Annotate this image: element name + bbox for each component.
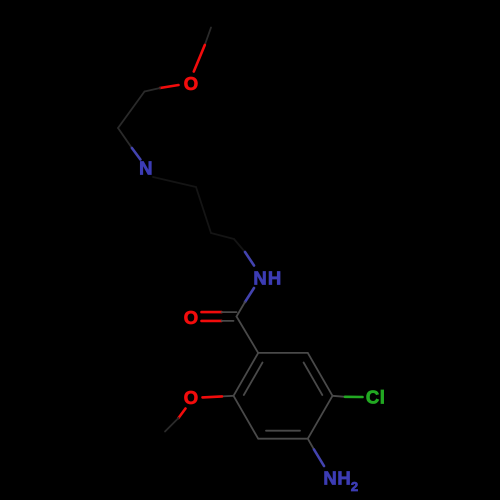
ring edge C5-C6: [308, 353, 333, 396]
wire C4-NH2 blue half: [314, 450, 324, 467]
wire NH-Cco carbon half: [237, 302, 246, 317]
wire NH to carbonyl C blue half: [245, 288, 254, 302]
svg-text:O: O: [184, 387, 198, 408]
ring edge C6-C1: [258, 352, 308, 354]
svg-text:N: N: [253, 268, 266, 289]
wire ring C5 to Cl carbon half: [333, 396, 346, 397]
wire C2-O red half: [203, 396, 223, 397]
wire ring C4 to NH2 carbon half: [308, 439, 314, 450]
wire chain C1-C2 (very dim): [196, 187, 211, 233]
svg-text:O: O: [184, 73, 198, 94]
wire CH2 to N carbon half: [118, 128, 132, 148]
inner line C5=C6: [304, 363, 323, 396]
benzene ring outer edges: [234, 353, 333, 439]
svg-text:O: O: [184, 307, 198, 328]
wire O-CH2 carbon half: [145, 88, 161, 92]
ring edge C3-C4: [258, 438, 308, 440]
wire ring C2 to OMe O carbon half: [222, 395, 234, 398]
wire O-CH3 carbon half (bottom): [165, 418, 179, 432]
inner line C3=C4: [266, 430, 300, 432]
inner line C1=C2: [244, 363, 263, 396]
wire chain C2-C3 (very dim): [211, 233, 234, 239]
wire C3-NH blue half: [245, 252, 254, 266]
svg-text:2: 2: [351, 479, 358, 494]
svg-text:N: N: [139, 158, 152, 179]
wire CH2-N blue half: [132, 148, 141, 160]
svg-text:N: N: [323, 468, 336, 489]
svg-text:H: H: [337, 468, 350, 489]
carbonyl C=O double bond carbon halves: [222, 312, 237, 321]
wire CH3 to O (top methyl, carbon half): [205, 28, 211, 46]
wire O-CH3 red half: [194, 45, 205, 72]
wire CH2-CH2 (fragment A): [118, 92, 145, 129]
wire N to chain C1 (very dim): [153, 177, 196, 187]
wire C3 to amide N carbon half (dim): [234, 239, 245, 252]
carbonyl C=O double bond red halves: [202, 312, 222, 321]
wire O to CH3 red half (bottom methoxy): [179, 409, 186, 419]
svg-text:H: H: [268, 268, 281, 289]
wire C5-Cl green half: [345, 395, 363, 398]
ring edge C4-C5: [308, 396, 333, 439]
ring edge C1-C2: [234, 353, 259, 396]
ring edge C2-C3: [234, 396, 259, 439]
wire Cco to ring C1: [237, 317, 259, 353]
svg-text:C: C: [366, 387, 379, 408]
wire O to CH2 (ether left bond, red half): [160, 85, 179, 88]
benzene inner double-bond lines: [244, 363, 322, 431]
svg-text:l: l: [380, 387, 385, 408]
